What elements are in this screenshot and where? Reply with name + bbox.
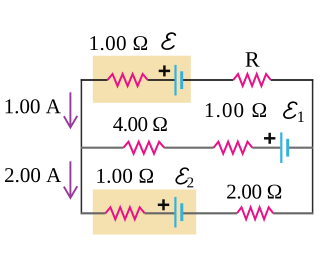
wire top branch right segment: [271, 79, 314, 81]
battery EMF source E1 (middle branch): [281, 132, 287, 163]
current label 2.00 A: [5, 168, 61, 182]
resistor 4.00-ohm (middle branch left): [123, 142, 164, 154]
resistor 1.00-ohm (top branch, inside highlight box): [108, 74, 148, 86]
wire middle branch right of battery E1: [289, 147, 314, 149]
reference label R (top right resistor): [246, 52, 260, 66]
EMF label script-E2 (bottom): [176, 168, 193, 187]
resistor 1.00-ohm (bottom branch, inside highlight box): [106, 207, 145, 219]
wire top branch battery-to-R segment: [183, 79, 234, 81]
wire bottom branch resistor-to-battery-E2 segment: [145, 212, 175, 214]
resistor 2.00-ohm (bottom branch right): [237, 207, 273, 219]
current label 1.00 A: [6, 99, 61, 113]
wire top branch resistor-to-battery segment: [148, 79, 175, 81]
wire bottom branch right segment: [273, 212, 313, 214]
wire left vertical branch: [80, 79, 82, 214]
resistor R (top branch right): [233, 74, 270, 86]
wire middle branch left segment: [81, 147, 124, 149]
battery EMF source E (top branch): [176, 65, 182, 96]
value label 1.00 ohm (bottom resistor): [97, 169, 153, 183]
current direction arrow for 1.00 A: [64, 92, 77, 127]
value label 1.00 ohm (top resistor): [90, 36, 147, 50]
current direction arrow for 2.00 A: [64, 161, 77, 198]
plus polarity sign of battery E2: [158, 199, 169, 210]
wire bottom branch left segment: [81, 212, 106, 214]
wire bottom branch battery-E2-to-resistor segment: [183, 212, 237, 214]
plus polarity sign of battery E: [159, 65, 170, 76]
wire top branch left segment: [81, 79, 108, 81]
EMF label script-E1 (middle): [284, 102, 304, 122]
wire middle branch between-resistors segment: [164, 147, 213, 149]
resistor 1.00-ohm (middle branch right): [214, 142, 253, 154]
wire middle branch resistor-to-battery-E1 segment: [252, 147, 280, 149]
highlight box around EMF source E (top): [93, 56, 191, 103]
value label 2.00 ohm (bottom right resistor): [227, 185, 281, 199]
value label 4.00 ohm (middle resistor): [113, 117, 167, 131]
highlight box around EMF source E2 (bottom): [93, 190, 196, 235]
plus polarity sign of battery E1: [264, 133, 275, 144]
value label 1.00 ohm (middle right resistor): [206, 103, 266, 117]
EMF label script-E (top): [162, 33, 175, 49]
battery EMF source E2 (bottom branch): [175, 197, 181, 228]
wire right vertical branch: [312, 79, 314, 214]
